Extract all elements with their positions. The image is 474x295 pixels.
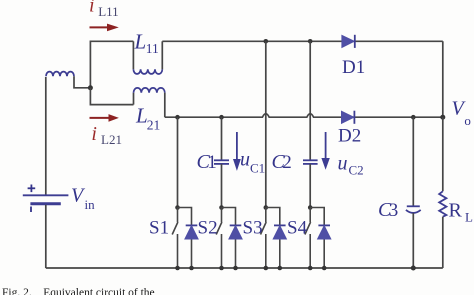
svg-text:D1: D1 [342,57,365,78]
wire right vertical (top rail to Vo node) [442,41,444,117]
wire top rail left segment [90,41,133,88]
junction dot Vo node [440,115,445,120]
resistor RL [439,117,446,268]
wire bottom rail [46,267,443,269]
diode D1 [342,35,355,48]
junction dot top rail / S3 branch [264,39,269,44]
svg-text:L21: L21 [101,132,122,147]
voltage arrow uC1 [233,132,241,171]
switch S2 blade [216,222,222,235]
capacitor C1 [214,117,229,207]
input inductor (unlabeled) [46,72,74,77]
svg-text:o: o [464,113,471,128]
branch S3: wire top rail through hop to switch [265,41,267,207]
svg-text:in: in [85,197,96,212]
branch S1: wire mid rail to switch [177,117,179,207]
junction dot top rail / S4 branch [308,39,313,44]
svg-text:R: R [449,200,463,222]
svg-text:S1: S1 [149,217,169,238]
junction dot mid rail / S1 branch [175,115,180,120]
switch S4 with antiparallel diode [305,205,331,270]
S1 body diode branch [178,208,192,269]
inductor L21 [134,88,165,117]
battery Vin [23,77,69,268]
battery plus sign [28,185,36,193]
S2 body diode branch [222,208,236,269]
switch S4 blade [305,222,311,235]
switch S2 with antiparallel diode [216,205,242,270]
svg-text:C2: C2 [349,163,364,178]
battery plate negative (short thick) [30,202,60,205]
svg-text:21: 21 [147,118,161,133]
svg-text:S4: S4 [287,217,308,238]
wire junction A down to L21 branch [90,88,133,105]
S3 body diode branch [266,208,280,269]
svg-text:2: 2 [282,152,292,173]
current arrow iL11 [90,24,119,32]
svg-text:C1: C1 [250,160,265,175]
inductor L11 [133,41,162,74]
wire mid rail [165,114,443,118]
svg-text:3: 3 [389,200,399,221]
svg-text:u: u [338,152,348,174]
junction node A dot [88,85,93,90]
svg-text:S3: S3 [243,217,263,238]
battery minus tick [30,207,32,213]
svg-text:L: L [134,30,147,54]
diode D2 [342,111,355,124]
svg-text:D2: D2 [338,126,361,147]
wire input coil to junction A [74,76,90,88]
capacitor C2 [303,41,318,207]
svg-text:u: u [240,148,250,170]
svg-text:11: 11 [146,41,159,56]
svg-text:S2: S2 [198,217,218,238]
svg-text:L: L [465,210,473,225]
svg-text:L11: L11 [98,4,118,19]
switch S1 with antiparallel diode [172,205,198,270]
junction dot mid rail / C3 branch [411,115,416,120]
svg-text:L: L [135,103,148,127]
S4 body diode branch [310,208,324,269]
svg-text:i: i [91,123,97,145]
switch S3 blade [261,222,267,235]
switch S3 with antiparallel diode [261,205,287,270]
switch S1 blade [172,222,178,235]
voltage arrow uC2 [321,132,329,170]
capacitor C3 [406,117,421,270]
wire top rail right segment [162,40,443,42]
svg-text:Fig. 2. Equivalent circuit: Fig. 2. Equivalent circuit of the [2,287,155,295]
svg-text:i: i [89,0,95,16]
battery plate positive (long) [23,194,69,196]
current arrow iL21 [90,114,119,122]
svg-text:1: 1 [207,152,217,173]
junction dot mid rail / C1-S2 branch [219,115,224,120]
